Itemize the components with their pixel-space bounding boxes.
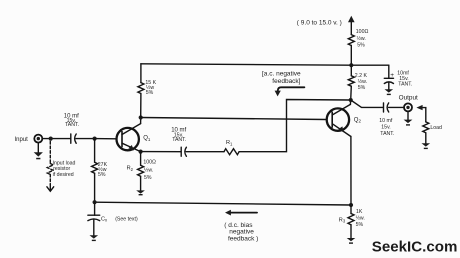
svg-text:½w.: ½w. (358, 78, 367, 85)
wire collector-base coupling (Q1 collector to Q2 base) (141, 118, 326, 120)
ground (load) (422, 143, 431, 149)
label 10mf 15v TANT (feedback cap) (171, 128, 186, 143)
ground (Cx) (90, 235, 99, 241)
label 15K 1/2w 5% (145, 80, 156, 96)
svg-text:TANT.: TANT. (172, 137, 186, 143)
wire feedback cap to R1 (186, 151, 224, 153)
wire Q2 collector to output cap (351, 100, 384, 107)
svg-text:5%: 5% (146, 90, 154, 96)
svg-text:TANT.: TANT. (380, 131, 394, 137)
input load resistor (dashed, optional) (47, 142, 53, 185)
svg-text:feedback]: feedback] (272, 78, 300, 85)
label 2.2K 1/2w 5% (355, 73, 368, 91)
resistor 2.2K (348, 65, 354, 100)
node: Q2 emitter / R3 / dc feedback rail (349, 203, 353, 207)
label 100 ohm 1/2w 5% (supply) (356, 29, 369, 49)
svg-text:TANT.: TANT. (65, 122, 79, 128)
resistor 27K (92, 139, 98, 203)
svg-text:½w.: ½w. (144, 166, 153, 173)
resistor R3 1K (348, 205, 354, 238)
node: rail / 100 ohm (349, 63, 353, 67)
wire Q2 emitter riser down (350, 137, 352, 206)
capacitor 10mf output (384, 103, 405, 112)
input terminal J1 (34, 135, 42, 153)
svg-text:100Ω: 100Ω (143, 160, 156, 166)
ground (R3) (347, 238, 356, 244)
capacitor C-in 10mf (71, 134, 95, 143)
label 10 mf 15v TANT (input cap) (64, 114, 79, 129)
node A: Q1 base / 27K (93, 137, 97, 141)
svg-text:[a.c. negative: [a.c. negative (262, 70, 301, 77)
svg-text:(See text): (See text) (115, 216, 138, 222)
svg-text:TANT.: TANT. (398, 81, 412, 87)
svg-text:5%: 5% (358, 85, 366, 91)
supply arrow (9.0 to 15.0 v.) (348, 16, 355, 35)
transistor Q2 (327, 104, 351, 136)
svg-text:100Ω: 100Ω (356, 29, 369, 35)
resistor 100 ohm (supply) (348, 35, 354, 66)
ground (R2) (136, 190, 145, 195)
wire Q1 emitter to feedback cap (141, 151, 181, 153)
wire top supply rail (141, 64, 389, 65)
svg-text:Load: Load (430, 125, 442, 131)
svg-text:½w.: ½w. (357, 35, 366, 42)
svg-text:R1: R1 (226, 140, 233, 146)
svg-text:R2: R2 (127, 166, 134, 172)
svg-text:Q1: Q1 (143, 136, 151, 142)
label Cx (See text) (101, 216, 138, 222)
node: input load branch (49, 137, 53, 141)
svg-text:1K: 1K (356, 209, 363, 215)
ground (bypass cap) (385, 89, 394, 95)
svg-text:R3: R3 (339, 217, 346, 223)
svg-text:if desired: if desired (53, 172, 74, 178)
svg-text:5%: 5% (144, 175, 152, 181)
resistor 15K (138, 64, 144, 118)
node: Cx / 27K corner (93, 200, 97, 204)
svg-text:10 mf: 10 mf (379, 118, 393, 124)
label 1K 1/2w 5% (356, 209, 365, 228)
svg-text:5%: 5% (357, 43, 365, 49)
ground (output terminal) (404, 120, 413, 126)
ground (input terminal) (34, 152, 43, 159)
ground (input load, arrow style) (47, 185, 54, 192)
resistor Load (423, 122, 429, 143)
capacitor Cx (88, 202, 100, 235)
wire node A to Q1 base (95, 138, 116, 140)
label input load resistor if desired (53, 161, 76, 179)
label (d.c. bias negative feedback) (224, 222, 258, 242)
node: Q2 collector / 2.2K / output / feedback (349, 98, 353, 102)
node: Q1 emitter junction (139, 150, 143, 154)
resistor R2 100 ohm (138, 152, 144, 191)
wire Q2 collector riser (349, 100, 351, 104)
label [a.c. negative feedback] (262, 70, 301, 85)
wire R1 to feedback riser (239, 100, 351, 152)
svg-text:½w.: ½w. (356, 214, 365, 221)
svg-text:feedback ): feedback ) (228, 235, 258, 242)
capacitor 10mf feedback (181, 147, 186, 156)
resistor R1 (224, 149, 239, 155)
wire input terminal to C-in (43, 138, 71, 140)
transistor Q1 (117, 124, 141, 152)
label 27K 1/2w 5% (98, 162, 108, 178)
output terminal J2 (404, 103, 412, 119)
svg-text:Input: Input (15, 137, 29, 143)
svg-text:+: + (390, 72, 394, 79)
wire dc feedback bottom rail (95, 202, 351, 205)
arrow d.c. bias feedback (225, 210, 257, 216)
svg-text:SeekIC.com: SeekIC.com (372, 239, 458, 256)
svg-text:Output: Output (399, 95, 418, 102)
label 10 mf 15v TANT (output cap) (379, 118, 394, 137)
svg-text:Q2: Q2 (354, 117, 362, 123)
label 100 ohm 1/2w 5% (R2) (143, 160, 156, 181)
capacitor 10mf supply bypass (384, 65, 393, 89)
label + 10mf 15v TANT (bypass cap) (390, 71, 412, 88)
svg-text:15v.: 15v. (381, 124, 390, 130)
arrow to load (416, 105, 425, 122)
svg-text:5%: 5% (356, 222, 364, 228)
arrow a.c. feedback (275, 87, 305, 96)
node: Q1 collector / 15K / to Q2 base (139, 115, 143, 119)
svg-text:5%: 5% (98, 172, 106, 178)
svg-text:Cx: Cx (101, 216, 108, 222)
svg-text:( 9.0 to 15.0 v. ): ( 9.0 to 15.0 v. ) (297, 19, 342, 26)
wire Q1 collector riser (140, 118, 142, 124)
